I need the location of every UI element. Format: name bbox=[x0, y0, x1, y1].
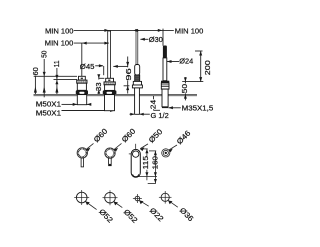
svg-text:MIN 100: MIN 100 bbox=[45, 27, 74, 36]
svg-text:50: 50 bbox=[180, 84, 189, 94]
svg-text:115: 115 bbox=[141, 156, 150, 169]
svg-text:M50X1: M50X1 bbox=[36, 108, 61, 117]
svg-text:50: 50 bbox=[39, 51, 48, 58]
svg-text:M35X1,5: M35X1,5 bbox=[182, 103, 214, 112]
svg-text:Ø24: Ø24 bbox=[179, 57, 193, 66]
svg-text:96: 96 bbox=[124, 68, 133, 81]
svg-text:60: 60 bbox=[31, 67, 40, 75]
svg-text:200: 200 bbox=[203, 60, 212, 75]
svg-text:Ø45: Ø45 bbox=[80, 62, 95, 71]
svg-text:M50X1: M50X1 bbox=[36, 99, 61, 108]
svg-text:24: 24 bbox=[149, 100, 158, 109]
svg-text:Ø30: Ø30 bbox=[149, 35, 163, 44]
svg-text:G 1/2: G 1/2 bbox=[151, 111, 169, 120]
svg-text:160: 160 bbox=[150, 156, 159, 169]
svg-text:11: 11 bbox=[52, 60, 61, 67]
svg-text:MIN 100: MIN 100 bbox=[175, 26, 204, 35]
svg-text:33: 33 bbox=[94, 82, 103, 91]
svg-text:MIN 100: MIN 100 bbox=[45, 39, 74, 48]
